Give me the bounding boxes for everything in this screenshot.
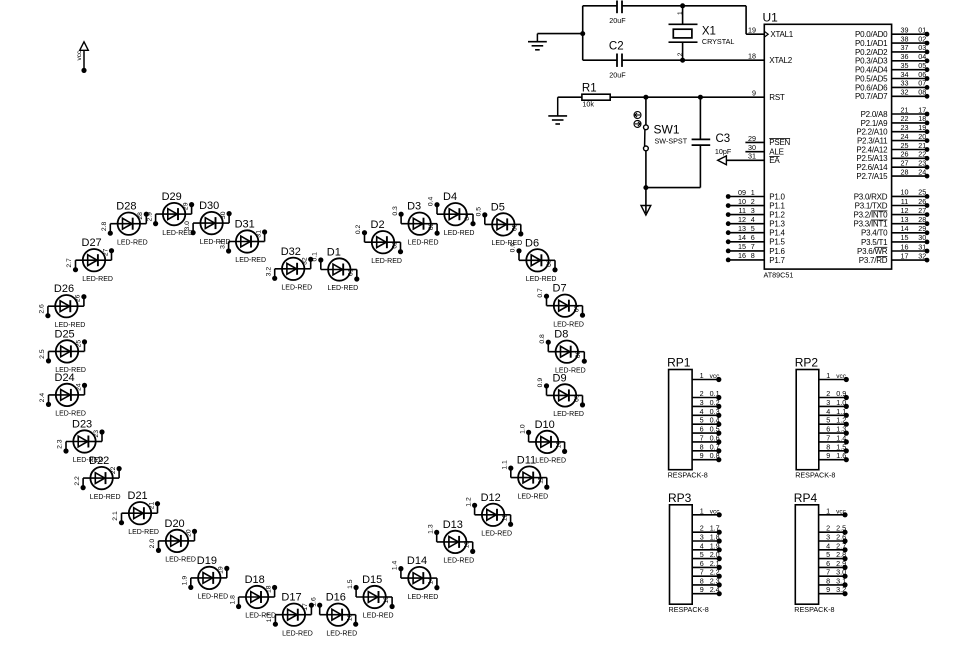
svg-text:0.2: 0.2 bbox=[355, 224, 362, 234]
svg-text:D17: D17 bbox=[281, 592, 301, 604]
capacitor C3 10pF bbox=[692, 97, 732, 187]
svg-text:7: 7 bbox=[826, 433, 830, 442]
svg-text:1: 1 bbox=[677, 11, 684, 15]
svg-text:21: 21 bbox=[148, 502, 155, 510]
svg-text:13: 13 bbox=[901, 215, 909, 224]
svg-text:0.3: 0.3 bbox=[710, 407, 720, 416]
svg-text:03: 03 bbox=[428, 222, 435, 230]
svg-text:39: 39 bbox=[901, 26, 909, 35]
svg-text:20: 20 bbox=[918, 132, 926, 141]
svg-text:LED-RED: LED-RED bbox=[444, 230, 475, 237]
svg-text:2.2: 2.2 bbox=[710, 568, 720, 577]
resistor pack RP3 RESPACK-8 bbox=[668, 491, 722, 614]
svg-text:01: 01 bbox=[918, 26, 926, 35]
pin 10 P3.0/RXD / net 25 bbox=[854, 188, 930, 202]
svg-text:3.2: 3.2 bbox=[836, 585, 846, 594]
svg-text:7: 7 bbox=[751, 242, 755, 251]
svg-text:10k: 10k bbox=[582, 100, 594, 109]
svg-text:2.2: 2.2 bbox=[74, 476, 81, 486]
pin 17 P3.7/RD / net 32 bbox=[859, 251, 930, 265]
svg-text:P2.5/A13: P2.5/A13 bbox=[856, 154, 888, 163]
svg-text:P0.3/AD3: P0.3/AD3 bbox=[855, 57, 888, 66]
crystal X1 bbox=[669, 3, 735, 62]
svg-text:31: 31 bbox=[255, 230, 262, 238]
svg-text:02: 02 bbox=[391, 241, 398, 249]
svg-text:3: 3 bbox=[700, 398, 704, 407]
svg-text:0.7: 0.7 bbox=[537, 288, 544, 298]
svg-text:LED-RED: LED-RED bbox=[117, 239, 148, 246]
svg-text:25: 25 bbox=[918, 188, 926, 197]
svg-text:1.1: 1.1 bbox=[502, 460, 509, 470]
svg-text:16: 16 bbox=[347, 614, 354, 622]
svg-text:31: 31 bbox=[748, 152, 756, 161]
svg-text:P3.0/RXD: P3.0/RXD bbox=[854, 192, 888, 201]
svg-text:02: 02 bbox=[918, 34, 926, 43]
svg-text:vcc: vcc bbox=[836, 373, 847, 380]
svg-text:7: 7 bbox=[700, 433, 704, 442]
pin 26 P2.5/A13 / net 22 bbox=[856, 150, 929, 164]
svg-text:2.4: 2.4 bbox=[710, 585, 720, 594]
svg-text:D27: D27 bbox=[82, 237, 102, 249]
svg-text:0.9: 0.9 bbox=[537, 378, 544, 388]
svg-text:2.5: 2.5 bbox=[836, 524, 846, 533]
pin 18 XTAL2 bbox=[748, 52, 793, 65]
svg-text:LED-RED: LED-RED bbox=[235, 257, 266, 264]
svg-text:27: 27 bbox=[901, 159, 909, 168]
pin 13 P3.3/INT1 / net 28 bbox=[854, 215, 930, 229]
svg-text:15: 15 bbox=[738, 242, 746, 251]
svg-text:LED-RED: LED-RED bbox=[481, 531, 512, 538]
svg-text:P0.0/AD0: P0.0/AD0 bbox=[855, 30, 888, 39]
svg-text:2: 2 bbox=[677, 52, 684, 56]
svg-text:D1: D1 bbox=[327, 247, 341, 259]
led D13 LED-RED bbox=[427, 519, 475, 565]
svg-text:RESPACK-8: RESPACK-8 bbox=[668, 471, 708, 480]
led D28 LED-RED bbox=[101, 201, 149, 247]
svg-text:23: 23 bbox=[93, 430, 100, 438]
svg-text:P3.7/RD: P3.7/RD bbox=[859, 256, 888, 265]
svg-text:LED-RED: LED-RED bbox=[55, 411, 86, 418]
svg-text:RESPACK-8: RESPACK-8 bbox=[669, 605, 709, 614]
svg-text:32: 32 bbox=[302, 257, 309, 265]
ground arrow bbox=[641, 188, 651, 216]
svg-text:D12: D12 bbox=[481, 492, 501, 504]
svg-text:2.0: 2.0 bbox=[710, 550, 720, 559]
svg-text:vcc: vcc bbox=[76, 50, 83, 61]
svg-text:30: 30 bbox=[220, 211, 227, 219]
svg-text:LED-RED: LED-RED bbox=[363, 613, 394, 620]
svg-text:C3: C3 bbox=[716, 133, 731, 145]
pin 29 PSEN bbox=[745, 134, 790, 147]
svg-text:P3.5/T1: P3.5/T1 bbox=[861, 238, 888, 247]
svg-text:28: 28 bbox=[918, 215, 926, 224]
pin 2 P1.1 / net 10 bbox=[726, 197, 786, 211]
pin 35 P0.4/AD4 / net 05 bbox=[855, 61, 929, 75]
pin 1 P1.0 / net 09 bbox=[726, 188, 786, 202]
svg-text:P2.7/A15: P2.7/A15 bbox=[856, 172, 888, 181]
wire gnd to cap bus bbox=[537, 33, 582, 35]
svg-text:2.7: 2.7 bbox=[836, 541, 846, 550]
svg-text:LED-RED: LED-RED bbox=[408, 594, 439, 601]
svg-text:D6: D6 bbox=[525, 237, 539, 249]
svg-text:LED-RED: LED-RED bbox=[55, 322, 86, 329]
mcu U1 AT89C51 body bbox=[763, 10, 892, 279]
svg-text:3.1: 3.1 bbox=[836, 576, 846, 585]
svg-text:24: 24 bbox=[918, 167, 926, 176]
svg-text:24: 24 bbox=[75, 383, 82, 391]
svg-text:1.3: 1.3 bbox=[836, 425, 846, 434]
svg-text:0.1: 0.1 bbox=[710, 389, 720, 398]
svg-text:P1.5: P1.5 bbox=[769, 238, 785, 247]
svg-text:LED-RED: LED-RED bbox=[128, 529, 159, 536]
svg-text:3: 3 bbox=[826, 533, 830, 542]
svg-text:0.8: 0.8 bbox=[710, 451, 720, 460]
led D22 LED-RED bbox=[74, 455, 122, 501]
pin 30 ALE bbox=[745, 143, 783, 156]
svg-text:14: 14 bbox=[738, 233, 746, 242]
pin 21 P2.0/A8 / net 17 bbox=[861, 105, 930, 119]
svg-text:1.6: 1.6 bbox=[836, 451, 846, 460]
svg-text:29: 29 bbox=[748, 134, 756, 143]
svg-text:19: 19 bbox=[918, 123, 926, 132]
pin 38 P0.1/AD1 / net 02 bbox=[855, 34, 929, 48]
svg-text:18: 18 bbox=[748, 52, 756, 61]
svg-text:LED-RED: LED-RED bbox=[245, 613, 276, 620]
svg-text:P1.7: P1.7 bbox=[769, 256, 785, 265]
svg-text:D13: D13 bbox=[443, 519, 463, 531]
svg-text:13: 13 bbox=[738, 224, 746, 233]
svg-text:P3.1/TXD: P3.1/TXD bbox=[855, 201, 888, 210]
resistor pack RP4 RESPACK-8 bbox=[794, 491, 848, 614]
svg-text:06: 06 bbox=[918, 70, 926, 79]
svg-text:2.3: 2.3 bbox=[710, 576, 720, 585]
svg-text:31: 31 bbox=[918, 242, 926, 251]
svg-text:EA: EA bbox=[769, 156, 780, 165]
svg-text:RP2: RP2 bbox=[795, 356, 819, 370]
led D27 LED-RED bbox=[66, 237, 114, 283]
svg-text:27: 27 bbox=[918, 206, 926, 215]
svg-text:LED-RED: LED-RED bbox=[90, 494, 121, 501]
pin 36 P0.3/AD3 / net 04 bbox=[855, 52, 929, 66]
pin 5 P1.4 / net 13 bbox=[726, 224, 786, 238]
svg-text:P1.2: P1.2 bbox=[769, 211, 785, 220]
svg-text:1.2: 1.2 bbox=[836, 416, 846, 425]
svg-text:0.5: 0.5 bbox=[476, 207, 483, 217]
svg-text:2.1: 2.1 bbox=[710, 559, 720, 568]
svg-text:08: 08 bbox=[575, 350, 582, 358]
svg-text:D10: D10 bbox=[535, 419, 555, 431]
svg-text:2: 2 bbox=[751, 197, 755, 206]
svg-text:2.9: 2.9 bbox=[146, 212, 153, 222]
svg-text:D4: D4 bbox=[443, 191, 457, 203]
svg-text:X1: X1 bbox=[702, 26, 716, 38]
svg-text:2.0: 2.0 bbox=[149, 539, 156, 549]
svg-text:vcc: vcc bbox=[710, 509, 721, 516]
svg-text:3.0: 3.0 bbox=[836, 568, 846, 577]
power flag VCC bbox=[76, 42, 88, 73]
led D6 LED-RED bbox=[510, 237, 558, 283]
svg-text:9: 9 bbox=[826, 585, 830, 594]
svg-text:1.9: 1.9 bbox=[182, 576, 189, 586]
svg-text:8: 8 bbox=[826, 576, 830, 585]
svg-text:P3.4/T0: P3.4/T0 bbox=[861, 229, 888, 238]
svg-text:D2: D2 bbox=[371, 219, 385, 231]
resistor pack RP1 RESPACK-8 bbox=[667, 356, 721, 480]
junction SW1 bbox=[643, 95, 648, 100]
pin 3 P1.2 / net 11 bbox=[726, 206, 786, 220]
svg-text:vcc: vcc bbox=[836, 509, 847, 516]
svg-text:0.6: 0.6 bbox=[710, 433, 720, 442]
wire RST net bbox=[610, 96, 764, 98]
svg-text:28: 28 bbox=[137, 212, 144, 220]
pin 11 P3.1/TXD / net 26 bbox=[855, 197, 930, 211]
svg-text:RP4: RP4 bbox=[794, 491, 818, 505]
pin 37 P0.2/AD2 / net 03 bbox=[855, 43, 929, 57]
svg-text:P0.7/AD7: P0.7/AD7 bbox=[855, 92, 888, 101]
led D14 LED-RED bbox=[392, 555, 440, 601]
pin 9 RST bbox=[752, 89, 785, 102]
svg-text:6: 6 bbox=[700, 425, 704, 434]
led D4 LED-RED bbox=[428, 191, 476, 237]
svg-text:35: 35 bbox=[901, 61, 909, 70]
svg-text:6: 6 bbox=[826, 425, 830, 434]
svg-text:LED-RED: LED-RED bbox=[326, 630, 357, 637]
led D25 LED-RED bbox=[39, 328, 87, 374]
svg-text:LED-RED: LED-RED bbox=[198, 594, 229, 601]
svg-text:1.4: 1.4 bbox=[836, 433, 846, 442]
switch SW1 SW-SPST bbox=[634, 97, 688, 187]
svg-text:5: 5 bbox=[700, 550, 704, 559]
svg-text:XTAL1: XTAL1 bbox=[770, 30, 793, 39]
svg-text:2: 2 bbox=[826, 389, 830, 398]
svg-text:2.6: 2.6 bbox=[836, 533, 846, 542]
svg-text:R1: R1 bbox=[582, 83, 597, 95]
led D7 LED-RED bbox=[537, 283, 585, 329]
svg-text:0.3: 0.3 bbox=[392, 206, 399, 216]
svg-text:P0.1/AD1: P0.1/AD1 bbox=[855, 39, 888, 48]
svg-text:P3.2/INT0: P3.2/INT0 bbox=[854, 211, 889, 220]
svg-text:4: 4 bbox=[751, 215, 755, 224]
svg-text:P0.4/AD4: P0.4/AD4 bbox=[855, 66, 888, 75]
svg-text:SW-SPST: SW-SPST bbox=[655, 137, 688, 146]
svg-text:30: 30 bbox=[918, 233, 926, 242]
svg-text:1: 1 bbox=[826, 506, 830, 515]
svg-text:D30: D30 bbox=[199, 200, 219, 212]
svg-text:P3.3/INT1: P3.3/INT1 bbox=[854, 220, 889, 229]
svg-text:0.2: 0.2 bbox=[710, 398, 720, 407]
capacitor C2 20uF bbox=[583, 40, 765, 79]
pin 32 P0.7/AD7 / net 08 bbox=[855, 88, 929, 102]
svg-text:10pF: 10pF bbox=[715, 147, 732, 156]
svg-text:D8: D8 bbox=[554, 329, 568, 341]
svg-text:26: 26 bbox=[75, 294, 82, 302]
junction C3 bbox=[698, 95, 703, 100]
svg-text:24: 24 bbox=[901, 132, 909, 141]
svg-text:13: 13 bbox=[464, 541, 471, 549]
svg-text:1.9: 1.9 bbox=[710, 541, 720, 550]
led D19 LED-RED bbox=[182, 555, 230, 601]
svg-text:16: 16 bbox=[901, 242, 909, 251]
svg-text:D5: D5 bbox=[491, 201, 505, 213]
led D9 LED-RED bbox=[537, 372, 585, 418]
svg-text:RESPACK-8: RESPACK-8 bbox=[795, 471, 835, 480]
svg-text:5: 5 bbox=[700, 416, 704, 425]
svg-text:26: 26 bbox=[901, 150, 909, 159]
ground (crystal caps) bbox=[528, 34, 547, 50]
svg-text:11: 11 bbox=[901, 197, 908, 206]
svg-text:5: 5 bbox=[751, 224, 755, 233]
wire vertical cap bus bbox=[582, 6, 584, 60]
led D30 LED-RED bbox=[184, 200, 232, 246]
svg-text:1.5: 1.5 bbox=[836, 442, 846, 451]
svg-text:LED-RED: LED-RED bbox=[553, 411, 584, 418]
svg-text:8: 8 bbox=[826, 442, 830, 451]
EA input arrow bbox=[718, 156, 765, 165]
led D10 LED-RED bbox=[519, 419, 567, 465]
svg-text:P1.1: P1.1 bbox=[769, 202, 785, 211]
svg-text:P1.6: P1.6 bbox=[769, 247, 785, 256]
svg-text:C2: C2 bbox=[609, 40, 624, 52]
svg-text:17: 17 bbox=[901, 251, 909, 260]
pin 4 P1.3 / net 12 bbox=[726, 215, 786, 229]
pin 27 P2.6/A14 / net 23 bbox=[856, 159, 929, 173]
svg-text:P1.0: P1.0 bbox=[769, 192, 785, 201]
led D18 LED-RED bbox=[229, 574, 277, 620]
svg-text:09: 09 bbox=[738, 188, 746, 197]
svg-text:1.1: 1.1 bbox=[836, 407, 846, 416]
svg-text:18: 18 bbox=[265, 585, 272, 593]
svg-text:20: 20 bbox=[185, 529, 192, 537]
svg-text:XTAL2: XTAL2 bbox=[769, 56, 792, 65]
svg-text:D16: D16 bbox=[326, 592, 346, 604]
svg-text:3.1: 3.1 bbox=[219, 239, 226, 249]
svg-text:4: 4 bbox=[826, 541, 830, 550]
led D20 LED-RED bbox=[149, 518, 197, 564]
svg-text:1: 1 bbox=[826, 371, 830, 380]
svg-text:RP3: RP3 bbox=[668, 491, 692, 505]
svg-text:2.1: 2.1 bbox=[112, 511, 119, 521]
svg-text:11: 11 bbox=[538, 477, 545, 484]
pin 28 P2.7/A15 / net 24 bbox=[856, 167, 929, 181]
pin 6 P1.5 / net 14 bbox=[726, 233, 786, 247]
svg-text:LED-RED: LED-RED bbox=[55, 367, 86, 374]
svg-text:1.8: 1.8 bbox=[710, 533, 720, 542]
svg-text:1.4: 1.4 bbox=[392, 560, 399, 570]
svg-text:05: 05 bbox=[918, 61, 926, 70]
svg-text:9: 9 bbox=[826, 451, 830, 460]
svg-text:6: 6 bbox=[826, 559, 830, 568]
svg-text:2.8: 2.8 bbox=[836, 550, 846, 559]
svg-text:3.0: 3.0 bbox=[184, 221, 191, 231]
svg-text:LED-RED: LED-RED bbox=[281, 285, 312, 292]
svg-text:8: 8 bbox=[700, 576, 704, 585]
svg-text:LED-RED: LED-RED bbox=[408, 239, 439, 246]
svg-text:D9: D9 bbox=[553, 372, 567, 384]
svg-text:P2.4/A12: P2.4/A12 bbox=[856, 145, 888, 154]
pin 12 P3.2/INT0 / net 27 bbox=[854, 206, 930, 220]
svg-text:38: 38 bbox=[901, 34, 909, 43]
svg-text:1.0: 1.0 bbox=[836, 398, 846, 407]
svg-text:2.6: 2.6 bbox=[39, 304, 46, 314]
svg-text:1.3: 1.3 bbox=[427, 524, 434, 534]
svg-text:P2.1/A9: P2.1/A9 bbox=[861, 119, 889, 128]
svg-text:12: 12 bbox=[738, 215, 746, 224]
svg-text:0.4: 0.4 bbox=[428, 196, 435, 206]
svg-text:3: 3 bbox=[751, 206, 755, 215]
svg-text:D26: D26 bbox=[54, 283, 74, 295]
svg-text:LED-RED: LED-RED bbox=[553, 321, 584, 328]
pin 34 P0.5/AD5 / net 06 bbox=[855, 70, 929, 84]
svg-text:29: 29 bbox=[918, 224, 926, 233]
pin 14 P3.4/T0 / net 29 bbox=[861, 224, 929, 238]
svg-text:SW1: SW1 bbox=[654, 122, 680, 136]
svg-text:29: 29 bbox=[182, 202, 189, 210]
svg-text:D18: D18 bbox=[245, 574, 265, 586]
svg-text:LED-RED: LED-RED bbox=[73, 457, 104, 464]
svg-text:D3: D3 bbox=[407, 201, 421, 213]
svg-text:D31: D31 bbox=[235, 219, 255, 231]
svg-text:D14: D14 bbox=[407, 555, 427, 567]
pin 25 P2.4/A12 / net 21 bbox=[856, 141, 929, 155]
svg-text:LED-RED: LED-RED bbox=[371, 258, 402, 265]
svg-text:D23: D23 bbox=[72, 419, 92, 431]
svg-text:32: 32 bbox=[918, 251, 926, 260]
svg-text:D21: D21 bbox=[128, 490, 148, 502]
led D29 LED-RED bbox=[146, 191, 194, 237]
svg-text:2.8: 2.8 bbox=[101, 221, 108, 231]
svg-text:12: 12 bbox=[901, 206, 909, 215]
pin 39 P0.0/AD0 / net 01 bbox=[855, 26, 929, 40]
svg-text:0.9: 0.9 bbox=[836, 389, 846, 398]
svg-text:6: 6 bbox=[700, 559, 704, 568]
resistor pack RP2 RESPACK-8 bbox=[795, 356, 849, 480]
svg-text:07: 07 bbox=[918, 79, 926, 88]
svg-text:2.3: 2.3 bbox=[57, 439, 64, 449]
svg-text:03: 03 bbox=[918, 43, 926, 52]
led D1 LED-RED bbox=[312, 247, 360, 293]
svg-text:10: 10 bbox=[901, 188, 909, 197]
led D11 LED-RED bbox=[502, 455, 550, 501]
svg-text:1: 1 bbox=[700, 506, 704, 515]
led D3 LED-RED bbox=[392, 201, 440, 247]
svg-text:D32: D32 bbox=[281, 246, 301, 258]
svg-text:19: 19 bbox=[218, 566, 225, 574]
led D15 LED-RED bbox=[347, 574, 395, 620]
pin 33 P0.6/AD6 / net 07 bbox=[855, 79, 929, 93]
junction sw/c3 bottom bbox=[643, 185, 648, 190]
led D23 LED-RED bbox=[57, 419, 105, 465]
svg-text:20uF: 20uF bbox=[609, 16, 626, 25]
svg-text:08: 08 bbox=[918, 88, 926, 97]
svg-text:D15: D15 bbox=[362, 574, 382, 586]
svg-text:D29: D29 bbox=[162, 191, 182, 203]
svg-text:17: 17 bbox=[302, 603, 309, 611]
led D16 LED-RED bbox=[310, 592, 358, 638]
svg-text:1: 1 bbox=[700, 371, 704, 380]
svg-text:18: 18 bbox=[918, 114, 926, 123]
svg-text:P3.6/WR: P3.6/WR bbox=[857, 247, 888, 256]
svg-text:0.7: 0.7 bbox=[710, 442, 720, 451]
svg-text:4: 4 bbox=[700, 541, 704, 550]
svg-text:21: 21 bbox=[901, 105, 909, 114]
svg-text:8: 8 bbox=[751, 251, 755, 260]
led D24 LED-RED bbox=[39, 372, 87, 418]
svg-text:2.9: 2.9 bbox=[836, 559, 846, 568]
pin 23 P2.2/A10 / net 19 bbox=[856, 123, 929, 137]
svg-text:25: 25 bbox=[901, 141, 909, 150]
svg-text:15: 15 bbox=[383, 596, 390, 604]
svg-text:6: 6 bbox=[751, 233, 755, 242]
